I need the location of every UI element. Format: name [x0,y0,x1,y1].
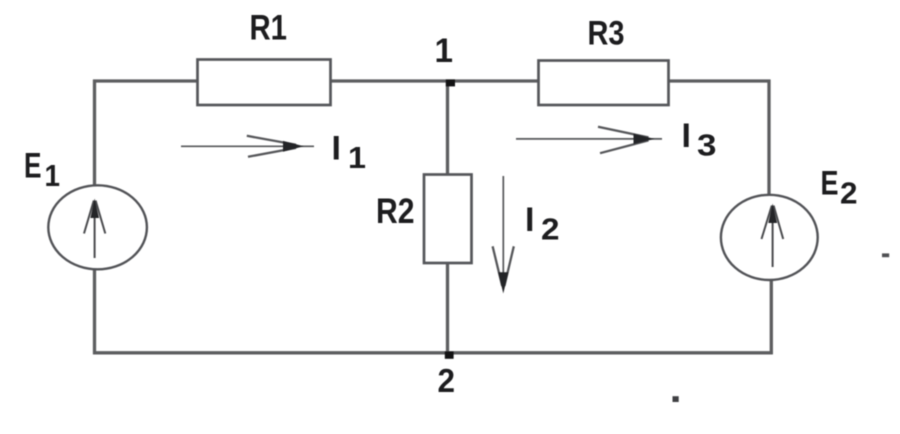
wire: top-right horizontal (R3 to corner) [668,79,771,82]
svg-text:I: I [525,201,534,239]
wire: middle vertical lower segment (R2 to node 2) [446,262,449,354]
node 2 junction dot [445,351,454,358]
svg-text:2: 2 [438,362,456,399]
svg-text:3: 3 [697,128,717,163]
wire: left vertical lower segment [93,269,96,355]
svg-text:I: I [682,117,691,155]
svg-text:R3: R3 [588,15,625,53]
wire: middle vertical upper segment (node 1 to R2) [446,81,449,175]
svg-text:1: 1 [45,158,61,193]
voltage source E2 (circle) [721,195,818,280]
wire: top-left horizontal (corner to R1) [93,79,198,82]
current arrow I1 [181,136,314,157]
svg-text:R1: R1 [250,9,288,48]
svg-text:1: 1 [348,140,366,175]
wire: right vertical lower segment [770,280,773,355]
node 1 junction dot [446,79,455,86]
resistor R3 [539,61,669,106]
wire: left vertical upper segment [93,80,96,186]
wire: right vertical upper segment [767,80,770,196]
stray mark: small dash right edge [882,253,889,257]
svg-text:E: E [24,147,42,186]
svg-text:2: 2 [541,212,560,247]
svg-text:1: 1 [435,32,454,70]
stray mark: small dot bottom area [673,396,679,402]
svg-text:I: I [332,130,341,168]
svg-text:R2: R2 [376,192,415,231]
voltage source E1 arrow [84,199,105,259]
resistor R1 [198,60,331,106]
wire: top middle horizontal (R1 to R3 through node 1) [330,79,539,82]
voltage source E2 arrow [762,204,784,268]
svg-text:E: E [821,164,839,202]
wire: bottom horizontal [93,351,773,354]
current arrow I2 [493,176,514,294]
svg-text:2: 2 [840,176,858,211]
current arrow I3 [516,127,662,153]
voltage source E1 (circle) [48,185,147,269]
resistor R2 [424,175,472,264]
